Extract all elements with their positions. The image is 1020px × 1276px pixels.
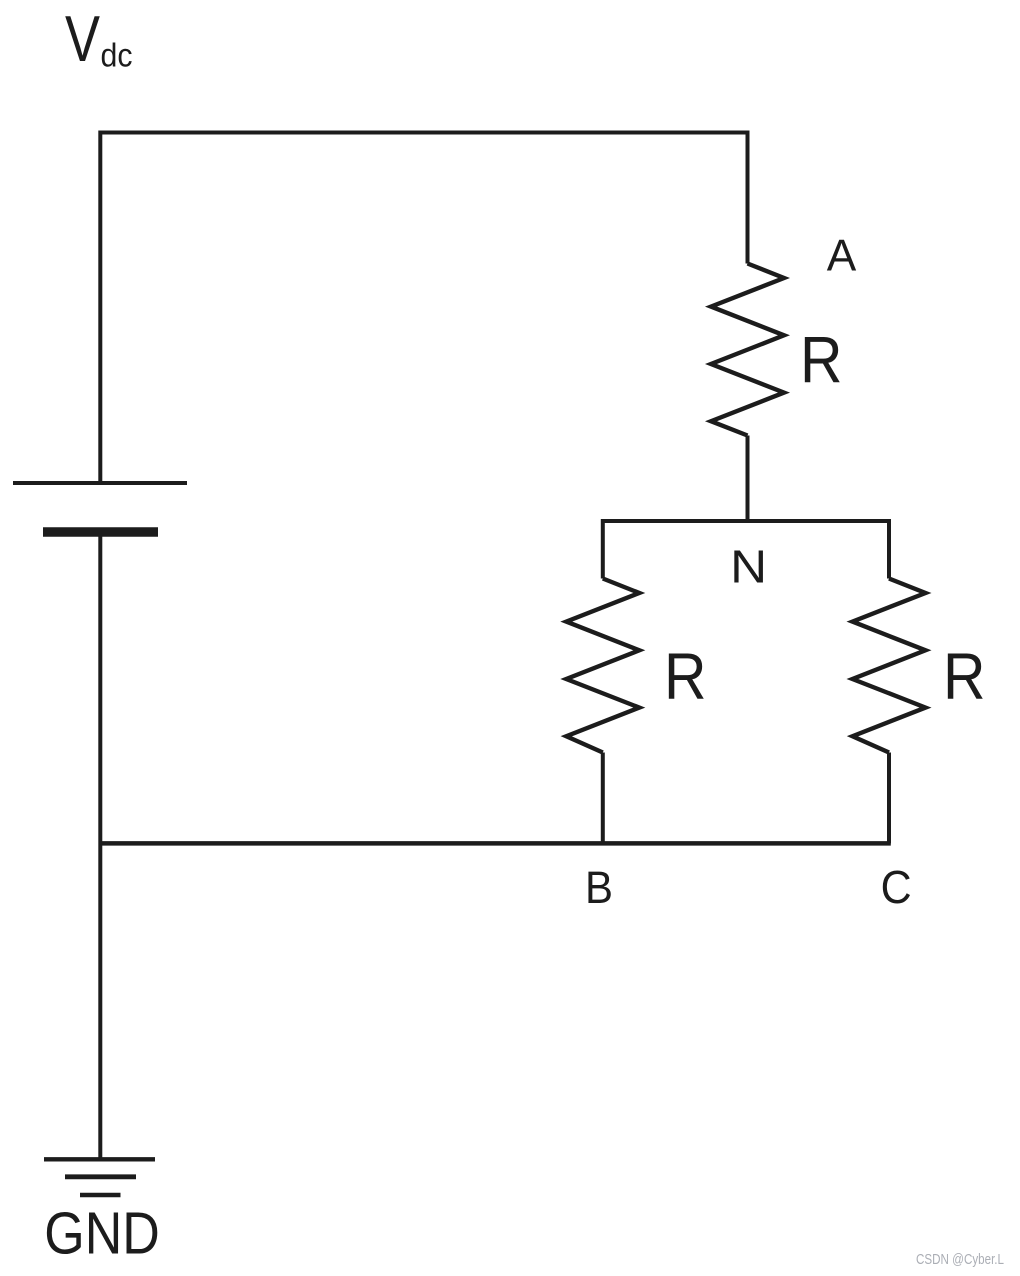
wire resistor R1 to node N <box>746 436 750 522</box>
battery V1 positive plate <box>13 481 187 485</box>
svg-text:A: A <box>827 232 857 281</box>
node N horizontal bus <box>603 521 889 579</box>
svg-text:R: R <box>664 639 707 713</box>
svg-text:dc: dc <box>101 37 133 74</box>
resistor R3 <box>853 579 926 753</box>
svg-text:GND: GND <box>44 1201 160 1267</box>
ground <box>44 1159 155 1195</box>
resistor R2 <box>566 579 639 753</box>
svg-text:B: B <box>585 862 613 913</box>
wire resistor R2 to node B <box>601 753 605 844</box>
wire top from battery positive to node A <box>100 133 747 484</box>
svg-text:N: N <box>730 541 767 593</box>
wire battery negative down to ground <box>98 532 102 1159</box>
svg-text:CSDN @Cyber.L: CSDN @Cyber.L <box>916 1252 1004 1268</box>
wire bottom bus from battery to node C <box>100 841 891 846</box>
wire resistor R3 to node C <box>887 753 891 844</box>
svg-text:R: R <box>943 639 986 713</box>
battery V1 negative plate <box>43 527 158 537</box>
svg-text:C: C <box>881 861 912 913</box>
svg-text:R: R <box>800 323 843 397</box>
node Vdc label <box>65 2 133 75</box>
svg-text:V: V <box>65 2 101 75</box>
resistor R1 <box>711 264 784 436</box>
